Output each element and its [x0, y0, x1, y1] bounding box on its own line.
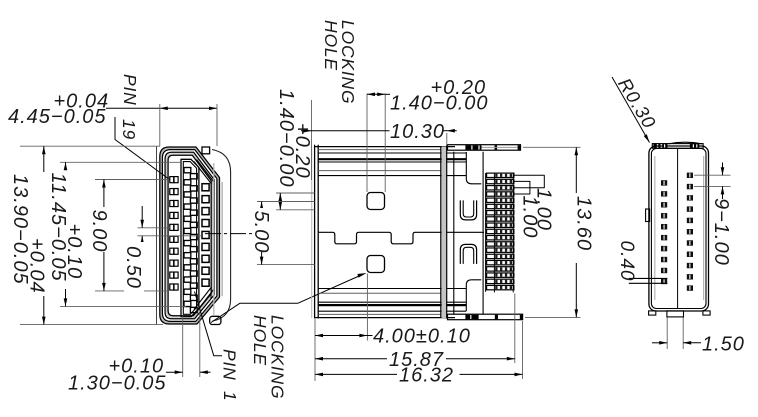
dimension 1.50 (bottom tab width) [652, 318, 745, 356]
side view: top bar with weld tabs [652, 142, 703, 148]
svg-text:+0.20: +0.20 [291, 123, 313, 179]
svg-text:+0.10: +0.10 [63, 224, 85, 280]
side view: body outline [649, 146, 709, 311]
bottom view: mid parting line with two slot notches [318, 232, 484, 244]
svg-text:+0.04: +0.04 [26, 238, 48, 294]
side view: centre parting line [677, 148, 679, 308]
svg-text:HOLE: HOLE [250, 315, 270, 366]
dimension 10.30 [301, 100, 457, 180]
bottom view: bottom mounting flange [448, 314, 523, 320]
svg-text:PIN: PIN [120, 74, 140, 106]
label PIN 1 with leader to bottom-right contact [195, 292, 241, 402]
svg-text:PIN: PIN [220, 349, 240, 381]
bottom view: right block outline [454, 152, 486, 315]
bottom view: top mounting flange [448, 145, 521, 151]
dimension 13.60 (body height) [523, 147, 595, 317]
svg-text:0.50: 0.50 [122, 246, 144, 289]
side view: small tab on left edge [646, 209, 650, 222]
front view: bottom-right shell tab (locking hole flange) [210, 316, 221, 324]
dimension 16.32 [315, 321, 523, 386]
dimension 4.00 +/-0.10 (hole position) [315, 274, 471, 382]
front view: top-right chamfer inner diagonals [194, 162, 212, 185]
dimension 0.50 (contact stagger) [122, 206, 202, 294]
dimension 1.30 +0.10/-0.05 (tongue thickness) [68, 312, 211, 395]
dimension 15.87 [315, 294, 515, 371]
svg-text:0.40: 0.40 [616, 241, 637, 282]
dimension 1.00 pitch callouts on solder pins [515, 175, 555, 238]
svg-text:16.32: 16.32 [399, 364, 454, 386]
svg-text:1.00: 1.00 [519, 196, 541, 239]
dimension 4.45 +0.04/-0.05 (shell width) [8, 91, 217, 147]
front view: tongue contact mesh (staggered contacts) [184, 168, 197, 313]
dimension 11.45 +0.10/-0.05 (tongue length) [47, 162, 186, 306]
svg-text:19: 19 [119, 119, 139, 140]
side view: rear contact row (9 pins) [661, 180, 667, 284]
svg-text:1.50: 1.50 [702, 334, 745, 356]
bottom view: solder pin comb (19 contacts) [487, 173, 514, 292]
front view: top-right shell tab [202, 147, 210, 154]
bottom view: lower latch spring (inverted U shape) [460, 244, 476, 264]
svg-text:HOLE: HOLE [321, 20, 341, 71]
front view: outer metal shell (multi-line sheet outline) [160, 147, 220, 324]
svg-text:+0.10: +0.10 [109, 356, 165, 378]
front view: contact row B (9 pins, right column) [202, 184, 209, 287]
label LOCKING HOLE (lower) with leaders to both views [211, 273, 367, 399]
side view: front contact row (10 pins) [687, 173, 693, 291]
bottom view: lower locking hole [367, 256, 385, 273]
dimension 1.40 +0.20/-0.00 (upper locking hole width) [367, 77, 489, 192]
svg-text:5.00: 5.00 [250, 211, 272, 254]
front view: insulator tongue outline [181, 159, 199, 316]
label LOCKING HOLE (upper) [321, 20, 358, 104]
svg-text:4.00±0.10: 4.00±0.10 [373, 325, 471, 347]
front view: bottom-right chamfer inner diagonals [194, 287, 212, 310]
bottom view: rounded rib near right [441, 145, 447, 319]
svg-text:+0.20: +0.20 [431, 77, 487, 99]
bottom view: upper latch spring (U shape) [460, 200, 476, 220]
front view: rear housing silhouette [156, 147, 158, 325]
dimension 5.00 (hole centre distance) [250, 202, 315, 265]
dimension 1.40 +0.20/-0.00 (left, locking hole height) [275, 89, 315, 210]
front view: contact row A (10 pins, left column) [170, 177, 178, 290]
dimension 13.90 +0.04/-0.05 (shell height) [9, 146, 163, 324]
dimension 0.40 (contact width) with leader [616, 241, 668, 284]
svg-text:9.00: 9.00 [88, 210, 110, 253]
svg-text:13.60: 13.60 [573, 196, 595, 251]
bottom view: upper locking hole [367, 193, 385, 210]
svg-text:+0.04: +0.04 [54, 91, 110, 113]
dimension 9-1.00 (front row pitch) [694, 163, 732, 266]
side view: bottom tabs [649, 311, 711, 317]
front view: inner shell right wall lines [210, 181, 212, 299]
svg-text:1: 1 [220, 391, 240, 402]
dimension R0.30 (shell corner radius) with leader [612, 74, 661, 142]
bottom view: body horizontal edge lines [315, 147, 467, 318]
svg-text:9−1.00: 9−1.00 [710, 198, 732, 266]
front view: horizontal centerline (dash-dot) [205, 233, 252, 235]
bottom view: body left edge [312, 145, 319, 319]
svg-text:10.30: 10.30 [390, 121, 445, 143]
dimension 9.00 (contact row span) [88, 180, 169, 291]
label PIN 19 with leader to top-left contact [115, 74, 170, 180]
